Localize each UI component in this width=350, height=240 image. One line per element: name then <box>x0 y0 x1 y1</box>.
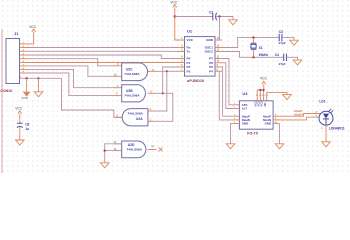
capacitor C3 27pF <box>279 30 286 45</box>
power symbol VCC (U3) <box>260 76 268 84</box>
svg-text:LD1: LD1 <box>319 99 325 103</box>
microcontroller U1 uP-BIO10 <box>178 37 223 77</box>
wire U2D inputs tied to ground <box>105 144 122 163</box>
svg-text:CON10: CON10 <box>0 89 12 93</box>
and-gate U2C 74ALS08A <box>114 63 156 81</box>
ground under U2D open triangle <box>100 163 109 168</box>
no-connect X on U2D output <box>159 147 163 151</box>
svg-text:VCC: VCC <box>29 25 37 29</box>
svg-text:U3: U3 <box>242 91 248 96</box>
ground open triangle (U3 left) <box>226 144 235 149</box>
U3 right pin numbers <box>275 114 278 123</box>
svg-text:GND: GND <box>206 38 214 42</box>
svg-text:X1: X1 <box>259 46 263 50</box>
wire J1.4 to U1.P0 <box>27 55 178 59</box>
svg-text:P3: P3 <box>187 69 191 73</box>
svg-text:P4: P4 <box>209 69 213 73</box>
ground open triangle (C8) <box>16 140 25 145</box>
ground open triangle (C4) <box>293 60 302 65</box>
wire U2B output to U2A pin1 <box>156 93 173 121</box>
fiber-optic transmitter U3 FO-TX <box>233 97 279 129</box>
sheet border <box>1 29 3 173</box>
wire J1.6 to U1.P1 <box>27 62 178 64</box>
wire U1.P4 to U3.DataN <box>219 71 233 120</box>
wire J1.7 to U2C pin10 <box>27 66 114 76</box>
J1 pin numbers 2-10 <box>19 42 25 78</box>
svg-text:C3: C3 <box>279 30 283 34</box>
power symbol VCC (J1) <box>29 25 37 32</box>
wire U1.P6 to U3.ALT <box>222 63 233 109</box>
wire riser to U1 pin14 GND <box>219 17 221 41</box>
power symbol VCC (U1) <box>170 1 178 8</box>
node junction VCC manifold <box>259 89 261 91</box>
wire U1.P7 to U3.CPA <box>222 59 233 105</box>
svg-text:U2D: U2D <box>128 143 135 147</box>
wire J1 pin1 to VCC <box>27 32 34 44</box>
wire U1 OSC1 to crystal top rail <box>222 38 279 48</box>
svg-text:C8: C8 <box>25 123 29 127</box>
svg-text:U2A: U2A <box>136 117 143 121</box>
node junction VCC manifold 2 <box>263 89 265 91</box>
wire ModP net U3 to LD1 <box>280 114 322 117</box>
U1 right pin numbers 8-14 <box>217 37 220 71</box>
svg-text:U1: U1 <box>187 28 193 33</box>
laser diode LD1 LDN48011 <box>319 109 333 125</box>
wire LD1 cathode to ground <box>325 125 327 142</box>
svg-text:ALT: ALT <box>242 107 248 111</box>
svg-text:J1: J1 <box>14 31 19 36</box>
and-gate U2B 74ALS08A <box>114 85 156 102</box>
svg-text:OSC2: OSC2 <box>205 50 214 54</box>
wire C3 to ground <box>282 38 294 41</box>
svg-text:FO-TX: FO-TX <box>247 132 258 136</box>
svg-text:74ALS08A: 74ALS08A <box>124 72 140 76</box>
svg-text:74ALS08A: 74ALS08A <box>128 112 144 116</box>
ground open triangle (U3 top) <box>283 95 292 100</box>
svg-text:GND: GND <box>242 122 248 126</box>
svg-text:74ALS08A: 74ALS08A <box>127 148 143 152</box>
wire J1 ground row to U2A output pin3 <box>62 78 123 117</box>
ground open triangle (C3) <box>290 40 299 45</box>
svg-text:VCC: VCC <box>187 38 194 42</box>
wire U3 left GND to ground <box>231 124 234 144</box>
wire branch to U2A pin2 <box>156 71 167 111</box>
capacitor C1 <box>209 10 217 20</box>
svg-text:60kHz: 60kHz <box>259 53 269 57</box>
svg-text:VCC: VCC <box>15 106 23 110</box>
ground open triangle (C1) <box>229 20 238 25</box>
wire J1.9 to U2B pin5 <box>27 73 114 96</box>
svg-text:C1: C1 <box>209 10 213 14</box>
wire VCC riser to U1 pin1 <box>175 7 178 40</box>
wire drop to GND open <box>38 78 40 92</box>
node junction C1 rail / pin14 riser <box>218 15 220 17</box>
node junction crystal top <box>252 36 254 38</box>
svg-text:GND: GND <box>265 122 271 126</box>
ground open triangle (U3 right) <box>275 144 284 149</box>
svg-text:C4: C4 <box>275 53 279 57</box>
capacitor C4 27pF <box>275 53 287 66</box>
node junction U2D input tie <box>104 150 106 152</box>
wire J1.5 to U2C pin9 <box>27 59 114 66</box>
wire J1 ground row <box>20 77 62 79</box>
svg-text:Tx: Tx <box>187 50 191 54</box>
svg-text:27pF: 27pF <box>279 62 286 66</box>
wire U1 OSC2 to crystal bottom rail <box>222 52 284 58</box>
svg-text:LDN48011: LDN48011 <box>329 127 345 131</box>
wire ModN net U3 to LD1 <box>280 117 322 120</box>
wire U2C output to U1.P3 <box>156 70 178 72</box>
ground GND filled triangle <box>21 92 30 100</box>
power symbol VCC (C8) <box>15 106 23 113</box>
svg-text:U2C: U2C <box>126 67 133 71</box>
wire U3 right GND to ground <box>279 124 281 144</box>
wire drop to GND filled <box>26 78 28 92</box>
wire C1 to ground rail <box>216 17 233 20</box>
wire J1.8 to U2B pin4 <box>27 69 114 87</box>
wire J1.3 to U1.Tx <box>27 50 175 52</box>
svg-text:U2B: U2B <box>126 89 133 93</box>
node junction crystal bottom <box>252 56 254 58</box>
U1 left pin numbers 1-7 <box>181 37 183 71</box>
and-gate U2A 74ALS08A (mirrored) <box>115 109 156 126</box>
svg-text:1u: 1u <box>25 127 29 131</box>
node junction U2B output branch <box>162 92 164 94</box>
svg-text:VCC: VCC <box>260 76 268 80</box>
node junction U2C output branch <box>166 70 168 72</box>
ground open triangle <box>34 92 43 97</box>
node junction on ground row 2 <box>37 77 39 79</box>
U3 left pin numbers <box>234 103 236 124</box>
svg-text:74ALS08A: 74ALS08A <box>124 94 140 98</box>
ground open triangle (LD1) <box>322 142 331 147</box>
svg-text:GD: GD <box>263 102 267 106</box>
svg-text:27pF: 27pF <box>279 41 286 45</box>
wire U3 top GND pin to ground <box>267 93 287 97</box>
wire C4 to ground <box>286 57 297 60</box>
node junction on ground row <box>25 77 27 79</box>
wire branch to U1.P2 <box>163 67 178 93</box>
wire U1.P5 to U3.DataP <box>222 67 233 116</box>
crystal X1 60kHz <box>251 38 269 58</box>
wire J1.2 to U1.Rx <box>27 47 178 49</box>
wire VCC manifold to U3 top pins <box>257 84 264 97</box>
svg-text:uP-BIO10: uP-BIO10 <box>187 79 204 83</box>
node junction VCC rail <box>174 15 176 17</box>
svg-text:GND: GND <box>21 96 29 100</box>
svg-text:ModN: ModN <box>294 113 302 117</box>
connector J1 CON10 <box>6 39 27 84</box>
and-gate U2D 74ALS08A <box>114 141 157 158</box>
capacitor C8 1u <box>17 114 30 140</box>
svg-text:VCC: VCC <box>170 1 178 5</box>
wire VCC rail to C1 <box>175 16 213 18</box>
U3 top pin numbers <box>256 95 269 97</box>
